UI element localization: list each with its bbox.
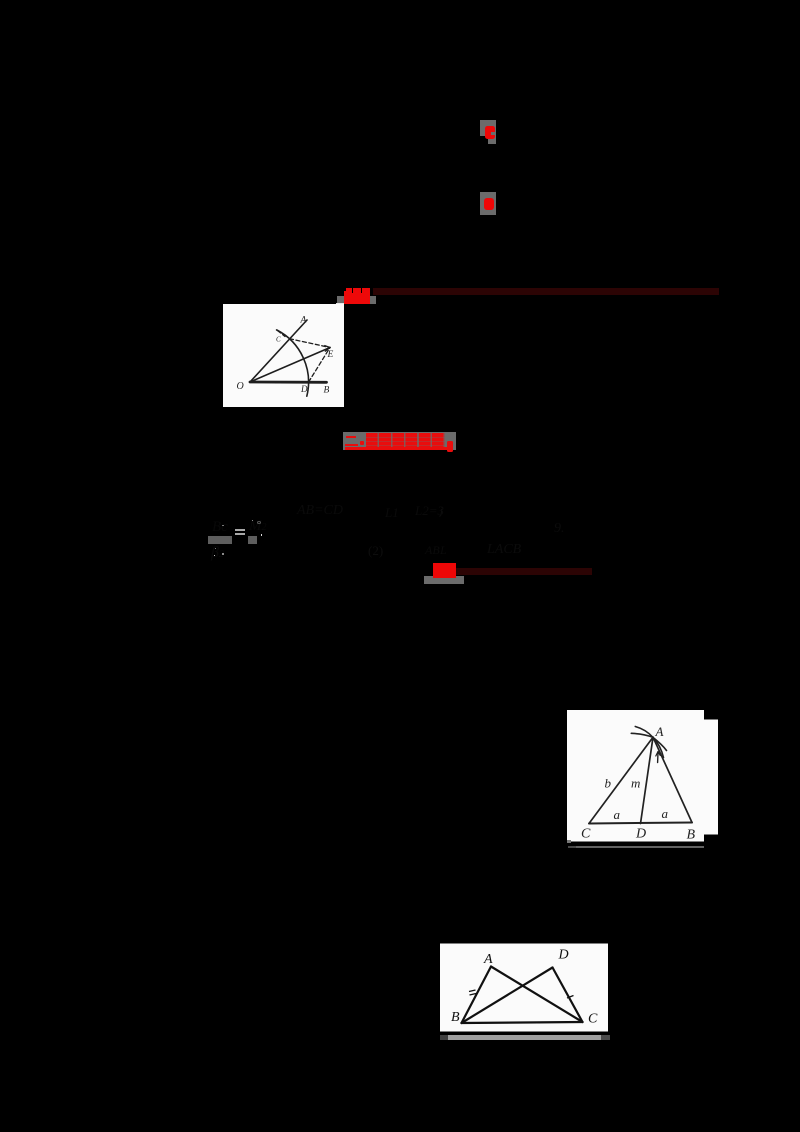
svg-text:A: A (300, 316, 307, 326)
svg-text:C: C (588, 1012, 598, 1027)
svg-text:b: b (605, 776, 612, 791)
svg-text:D: D (558, 948, 569, 963)
svg-text:A: A (483, 952, 493, 967)
svg-text:C: C (276, 336, 281, 344)
svg-text:a: a (662, 806, 669, 821)
svg-text:C: C (581, 827, 591, 842)
svg-text:E: E (327, 350, 334, 360)
svg-text:B: B (451, 1010, 460, 1025)
svg-text:m: m (631, 776, 640, 791)
svg-text:a: a (614, 807, 621, 822)
svg-text:D: D (635, 827, 646, 842)
svg-text:A: A (655, 724, 664, 739)
svg-text:B: B (687, 828, 696, 843)
svg-text:B: B (324, 386, 330, 396)
svg-text:D: D (300, 384, 308, 394)
svg-text:O: O (237, 381, 244, 392)
